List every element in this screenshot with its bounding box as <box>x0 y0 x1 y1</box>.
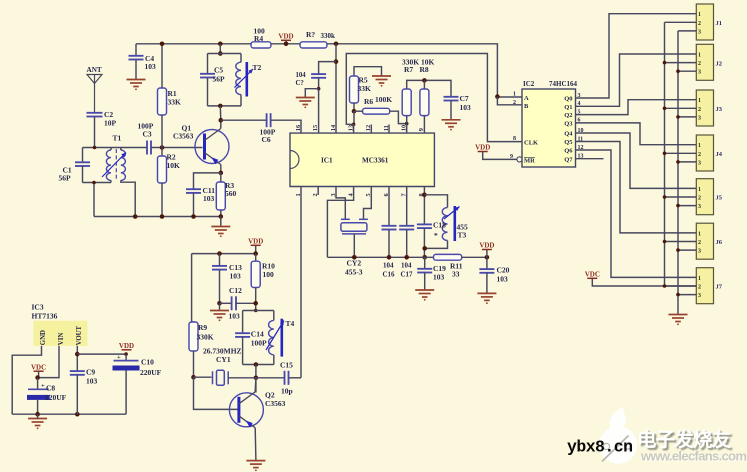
ground front-end <box>211 227 230 234</box>
junction tank top node T4 <box>254 309 258 313</box>
inductor winding T1 secondary <box>121 150 126 180</box>
junction J7 pin3 <box>676 293 680 297</box>
svg-text:2: 2 <box>698 107 701 113</box>
svg-text:VOUT: VOUT <box>76 325 83 345</box>
wire J2 pin3 wire <box>678 70 696 72</box>
wire tank to collector node <box>219 106 222 120</box>
junction xtal node <box>254 376 259 381</box>
wire Q2 base wire <box>194 377 239 409</box>
wire J4 pin3 wire <box>678 161 696 163</box>
ground C20 <box>477 293 496 300</box>
svg-text:10P: 10P <box>104 119 117 128</box>
wire R3 top lead <box>220 173 222 182</box>
wire xtal to C15 <box>256 377 285 379</box>
resistor R4 100 <box>251 42 271 48</box>
svg-text:3: 3 <box>698 204 701 210</box>
junction ant node <box>93 146 97 150</box>
wire T3 bottom lead <box>425 241 448 249</box>
wire R3 bottom lead <box>220 210 222 217</box>
junction J5 pin3 <box>676 204 680 208</box>
wire Q6 route <box>576 150 697 277</box>
svg-text:T4: T4 <box>286 319 295 328</box>
wire C9 bottom lead <box>76 375 78 414</box>
wire T3 top lead <box>424 195 447 208</box>
wire C20 top lead <box>486 257 488 269</box>
wire Q0 route <box>576 14 697 98</box>
junction J6 pin2 <box>663 240 667 244</box>
crystal CY1 <box>213 370 229 385</box>
svg-text:1: 1 <box>698 53 701 59</box>
wire C10 top lead <box>125 354 127 361</box>
wire pin15 up wire <box>318 89 320 133</box>
svg-text:103: 103 <box>433 273 445 282</box>
transistor Q2 C3563 <box>229 393 263 427</box>
junction rail VDD tap <box>284 42 289 47</box>
wire C19 gnd lead <box>424 273 426 291</box>
wire Q4 route <box>576 133 697 188</box>
svg-text:103: 103 <box>460 103 472 112</box>
svg-text:C3563: C3563 <box>265 399 286 408</box>
wire emitter to C11 <box>194 173 221 189</box>
svg-text:ybx8.cn: ybx8.cn <box>567 438 633 457</box>
wire VOUT pin wire <box>76 346 78 371</box>
ground Q2 emitter <box>246 461 265 468</box>
wire T1 sec top lead <box>120 148 122 151</box>
wire pin12 stub <box>370 125 372 134</box>
junction bus C17 <box>404 255 409 260</box>
svg-text:MR: MR <box>524 157 535 164</box>
svg-text:C16: C16 <box>383 271 396 279</box>
svg-text:VDD: VDD <box>278 33 293 41</box>
capacitor C12 103 <box>232 296 236 310</box>
svg-text:330K: 330K <box>197 333 214 342</box>
wire R10 bottom lead <box>255 288 257 311</box>
svg-text:ANT: ANT <box>87 66 102 74</box>
junction tank bottom node <box>422 246 427 251</box>
connector J3 <box>696 90 713 126</box>
wire C8 top lead <box>37 378 39 390</box>
wire R5R6 to pin13 <box>353 111 355 124</box>
wire R7 to pin10 <box>406 116 408 134</box>
resistor R10 100 <box>251 261 260 287</box>
svg-text:104: 104 <box>296 72 307 79</box>
wire Q2 route <box>576 100 697 115</box>
junction C? tap <box>334 59 339 64</box>
resistor R5 33K <box>350 76 359 103</box>
svg-text:103: 103 <box>229 312 241 321</box>
wire R1 bottom lead <box>161 115 163 148</box>
wire IF ground bus <box>327 256 433 258</box>
wire gnd drop left <box>93 183 95 217</box>
wire gnd stub osc <box>219 303 221 310</box>
junction pin13 node <box>352 123 356 127</box>
svg-text:10K: 10K <box>167 161 181 170</box>
wire Q2 emitter down <box>254 428 257 461</box>
wire Q1 emitter down <box>220 165 222 173</box>
svg-text:104: 104 <box>401 262 412 270</box>
wire R7R8 top wire <box>407 80 451 96</box>
junction C? gnd node <box>317 87 321 91</box>
wire C5 bottom lead <box>207 78 209 106</box>
junction base node <box>160 145 165 150</box>
wire R6 right lead <box>390 111 407 123</box>
capacitor C17 104 <box>399 226 414 230</box>
wire pin13 stub <box>353 124 355 133</box>
wire C4 to gnd <box>135 60 137 80</box>
MR bubble <box>517 157 522 162</box>
svg-text:C5: C5 <box>214 66 223 75</box>
svg-text:3: 3 <box>698 160 701 166</box>
svg-text:IC1: IC1 <box>321 157 333 165</box>
wire C19 top lead <box>424 257 426 269</box>
svg-text:1: 1 <box>513 92 516 98</box>
svg-text:T2: T2 <box>253 63 262 72</box>
wire A stub <box>497 96 522 98</box>
svg-text:C8: C8 <box>46 384 55 393</box>
svg-text:100K: 100K <box>375 95 392 104</box>
svg-text:R7: R7 <box>404 65 413 74</box>
wire J3 pin3 wire <box>678 116 696 118</box>
wire J6 pin3 wire <box>678 249 696 251</box>
wire C7 gnd lead <box>450 101 452 120</box>
wire pin11 stub <box>388 125 390 134</box>
svg-text:9: 9 <box>510 154 513 160</box>
capacitor C18 <box>417 224 432 228</box>
junction tank bottom tap <box>218 104 223 109</box>
wire VDD IF stub <box>486 250 488 258</box>
junction bus CY2 <box>352 255 357 260</box>
wire VDD osc stub <box>255 245 257 253</box>
svg-text:VDD: VDD <box>248 238 263 246</box>
wire CY1 right lead <box>228 377 256 379</box>
wire R8 top lead <box>423 80 425 89</box>
svg-text:3: 3 <box>698 115 701 121</box>
wire pin8 wire bottom <box>423 228 425 257</box>
svg-text:IC3: IC3 <box>32 303 44 312</box>
wire osc top row <box>192 253 256 255</box>
wire Q1 route <box>576 54 697 106</box>
svg-text:MC3361: MC3361 <box>362 157 389 165</box>
svg-text:R?: R? <box>306 30 315 39</box>
junction J6 pin3 <box>676 248 680 252</box>
junction rail tank tap <box>218 42 223 47</box>
junction J4 pin3 <box>676 160 680 164</box>
junction emitter node <box>219 171 224 176</box>
wire R5 top loop <box>354 67 382 76</box>
junction osc tank bottom <box>254 362 259 367</box>
svg-text:1: 1 <box>698 187 701 193</box>
svg-text:Q6: Q6 <box>564 148 573 155</box>
wire C3 to base node <box>151 147 202 149</box>
svg-text:2: 2 <box>698 61 701 67</box>
svg-text:8: 8 <box>513 136 516 142</box>
svg-text:R4: R4 <box>254 34 263 43</box>
svg-text:J1: J1 <box>716 20 723 27</box>
wire T1 sec bottom lead <box>121 180 135 216</box>
ground osc <box>210 311 229 318</box>
wire VDD stub <box>285 40 287 44</box>
wire tank bottom <box>208 105 242 107</box>
wire T1 prim top lead <box>110 148 112 151</box>
resistor R? 330k <box>300 42 327 48</box>
inductor winding T1 primary <box>106 150 111 180</box>
svg-text:GND: GND <box>40 330 47 345</box>
wire T4 tank bottom <box>243 364 274 366</box>
svg-text:2: 2 <box>698 152 701 158</box>
wire tank top <box>208 53 242 55</box>
svg-text:3: 3 <box>698 249 701 255</box>
capacitor C15 10p <box>285 371 289 385</box>
svg-text:56P: 56P <box>59 174 72 183</box>
ground J bus <box>669 315 688 322</box>
svg-text:10: 10 <box>401 125 408 131</box>
wire VDC to J7 <box>592 278 696 286</box>
wire T2 top lead <box>240 54 242 63</box>
capacitor C3 100P <box>147 141 151 155</box>
svg-text:74HC164: 74HC164 <box>549 80 578 88</box>
ground C4 <box>127 80 146 87</box>
adjust arrow T3 arrow <box>444 207 460 220</box>
svg-text:+: + <box>41 383 45 390</box>
wire GND pin wire <box>12 346 41 414</box>
svg-text:www.elecfans.com: www.elecfans.com <box>640 449 747 464</box>
svg-text:VDC: VDC <box>585 271 600 279</box>
IC U1 MC3361 body <box>290 133 434 186</box>
watermark logo circle <box>599 407 637 464</box>
wire pin4 wire <box>327 187 353 258</box>
wire J5 pin3 wire <box>678 205 696 207</box>
wire T4 bottom lead <box>273 355 275 365</box>
junction osc C13 tap <box>217 251 222 256</box>
resistor R9 330K <box>189 322 198 351</box>
svg-text:VIN: VIN <box>58 333 65 346</box>
wire C11 bottom <box>193 193 195 217</box>
inductor winding T3 <box>442 208 447 241</box>
junction osc VDD node <box>253 251 258 256</box>
junction T1 bottom tap <box>92 181 96 185</box>
wire R5 bottom <box>353 103 355 111</box>
svg-text:A: A <box>524 95 529 102</box>
transformer T1 core <box>115 149 117 181</box>
junction bus R3 <box>219 214 224 219</box>
wire Q1 collector up <box>220 120 222 128</box>
svg-text:R8: R8 <box>420 65 429 74</box>
junction tank top tap <box>218 51 223 56</box>
wire R1 top lead <box>161 44 163 88</box>
svg-text:VDC: VDC <box>31 363 46 371</box>
capacitor C11 103 <box>186 189 201 193</box>
capacitor C19 103 <box>417 269 432 273</box>
svg-text:Q1: Q1 <box>564 104 572 111</box>
adjust arrow T2 arrow <box>235 69 254 88</box>
wire C? top wire <box>319 62 336 75</box>
svg-text:HT7136: HT7136 <box>32 312 58 321</box>
wire R2 top lead <box>161 148 163 157</box>
junction bus T1 sec <box>133 214 138 219</box>
junction J5 pin2 <box>663 195 667 199</box>
wire C20 gnd lead <box>486 273 488 294</box>
wire pin7 wire bottom <box>406 230 408 258</box>
junction osc gnd node <box>217 301 222 306</box>
wire CY1 left lead <box>194 376 212 378</box>
wire pin8 wire top <box>423 187 425 225</box>
svg-text:103: 103 <box>203 194 215 203</box>
svg-text:Q2: Q2 <box>564 112 572 119</box>
junction R8 top <box>422 78 427 83</box>
wire pin2 stub <box>317 187 319 196</box>
connector J1 <box>696 4 713 40</box>
wire tank riser <box>219 44 221 54</box>
svg-text:Q4: Q4 <box>564 131 573 138</box>
svg-text:10p: 10p <box>281 387 293 396</box>
wire J1 pin2 wire <box>665 21 697 23</box>
svg-text:J7: J7 <box>716 284 723 291</box>
wire ant to T1 node <box>94 117 96 148</box>
connector J2 <box>696 44 713 80</box>
junction pin10 node <box>405 122 409 126</box>
svg-text:15: 15 <box>312 125 319 131</box>
wire R9 top lead <box>192 254 194 322</box>
svg-text:VDD: VDD <box>479 242 494 250</box>
svg-text:220UF: 220UF <box>140 368 162 377</box>
capacitor C1 56P <box>75 162 90 166</box>
adjust arrow T4 arrow <box>266 321 284 351</box>
wire J4 pin2 wire <box>665 152 697 154</box>
svg-text:Q5: Q5 <box>564 139 573 146</box>
wire T2 bottom lead <box>240 95 242 106</box>
wire Q3 route <box>576 123 697 145</box>
inductor winding T2 <box>236 62 241 94</box>
svg-text:R9: R9 <box>198 323 207 332</box>
svg-text:C15: C15 <box>280 361 293 370</box>
wire J7 pin2 wire <box>665 285 697 287</box>
svg-text:14: 14 <box>330 124 337 131</box>
junction VOUT node <box>75 352 80 357</box>
wire pin5 wire <box>364 187 372 220</box>
svg-text:C10: C10 <box>141 358 154 367</box>
wire bus after R11 <box>462 256 487 258</box>
transformer T3 core <box>453 206 456 241</box>
svg-text:C17: C17 <box>401 271 414 279</box>
wire R6 left lead <box>354 110 363 112</box>
junction C10 node <box>124 352 128 356</box>
svg-text:455-3: 455-3 <box>345 268 363 277</box>
svg-text:330k: 330k <box>321 32 336 40</box>
connector J5 <box>696 179 713 215</box>
wire pin2 bus <box>664 22 666 286</box>
wire bus gnd stub <box>220 217 222 227</box>
wire VDC stub <box>38 371 40 377</box>
capacitor C6 100P <box>267 113 271 127</box>
svg-text:J3: J3 <box>716 106 723 113</box>
junction R10/C12 node <box>253 301 258 306</box>
svg-text:T3: T3 <box>458 231 467 240</box>
junction bus R2 <box>160 214 165 219</box>
ceramic filter CY2 <box>341 219 368 234</box>
resistor R2 10K <box>158 156 167 183</box>
svg-text:33K: 33K <box>358 84 372 93</box>
capacitor C20 103 <box>479 269 494 273</box>
svg-text:J5: J5 <box>716 195 723 202</box>
IC U3 HT7136 body <box>33 321 87 346</box>
transistor Q1 C3563 <box>195 130 229 164</box>
svg-text:T1: T1 <box>113 134 122 143</box>
junction J7 pin2 <box>663 284 667 288</box>
wire rail to C4 <box>135 44 137 56</box>
transformer T4 core <box>280 319 283 357</box>
antenna ANT <box>87 75 102 114</box>
transformer T2 core <box>246 62 249 97</box>
svg-text:CY2: CY2 <box>347 259 362 268</box>
capacitor C7 103 <box>444 97 459 101</box>
wire C8 bottom lead <box>37 400 39 414</box>
wire C14 top lead <box>242 311 244 334</box>
connector J4 <box>696 135 713 171</box>
svg-text:CY1: CY1 <box>216 355 231 364</box>
wire Q2 collector up <box>254 378 257 392</box>
svg-text:2: 2 <box>698 196 701 202</box>
svg-text:1: 1 <box>698 98 701 104</box>
wire CLK loop <box>346 54 522 142</box>
IC U2 74HC164 body <box>522 89 576 167</box>
wire J6 pin2 wire <box>665 241 697 243</box>
junction AB node <box>495 94 500 99</box>
svg-text:VDD: VDD <box>475 144 490 152</box>
wire pin7 wire top <box>406 187 408 226</box>
wire pin6 wire top <box>388 187 390 226</box>
junction collector node <box>219 118 224 123</box>
svg-text:J6: J6 <box>716 239 723 246</box>
wire T1 prim bottom lead <box>110 180 112 182</box>
capacitor C4 103 <box>129 56 144 60</box>
capacitor C8 220UF <box>28 388 49 390</box>
svg-text:16: 16 <box>295 125 302 131</box>
capacitor C16 104 <box>382 226 397 230</box>
svg-text:C14: C14 <box>251 330 264 339</box>
adjust arrow T1 arrow <box>102 153 126 178</box>
wire gnd sym stub <box>37 414 39 418</box>
wire pin1 long wire <box>300 187 302 378</box>
wire collector riser <box>255 365 257 393</box>
ground R5 top <box>372 76 391 83</box>
svg-text:104: 104 <box>383 262 394 270</box>
wire J2 pin2 wire <box>665 62 697 64</box>
wire pin6 wire bottom <box>388 230 390 258</box>
junction J3 pin2 <box>663 107 667 111</box>
wire top node row <box>83 147 148 149</box>
wire C12 left lead <box>220 302 232 304</box>
wire B wire <box>497 97 522 105</box>
svg-text:3: 3 <box>698 29 701 35</box>
wire C6 left wire <box>221 119 267 121</box>
wire C15 to pin1 <box>289 377 301 379</box>
wire MR wire <box>483 152 517 160</box>
wire T1 bottom left <box>83 182 112 184</box>
ground C7 <box>442 120 461 127</box>
svg-text:2: 2 <box>698 285 701 291</box>
junction rail R1 tap <box>160 42 165 47</box>
svg-text:VDD: VDD <box>119 342 134 350</box>
wire VIN pin wire <box>38 346 59 378</box>
wire J7 pin3 wire <box>678 294 696 296</box>
wire pin14 drop <box>335 44 337 133</box>
junction J3 pin3 <box>676 115 680 119</box>
svg-text:B: B <box>524 103 529 110</box>
resistor R11 33 <box>434 254 462 260</box>
svg-text:33: 33 <box>452 270 460 279</box>
svg-text:100P: 100P <box>251 339 267 348</box>
wire R8 to pin9 <box>423 116 425 134</box>
